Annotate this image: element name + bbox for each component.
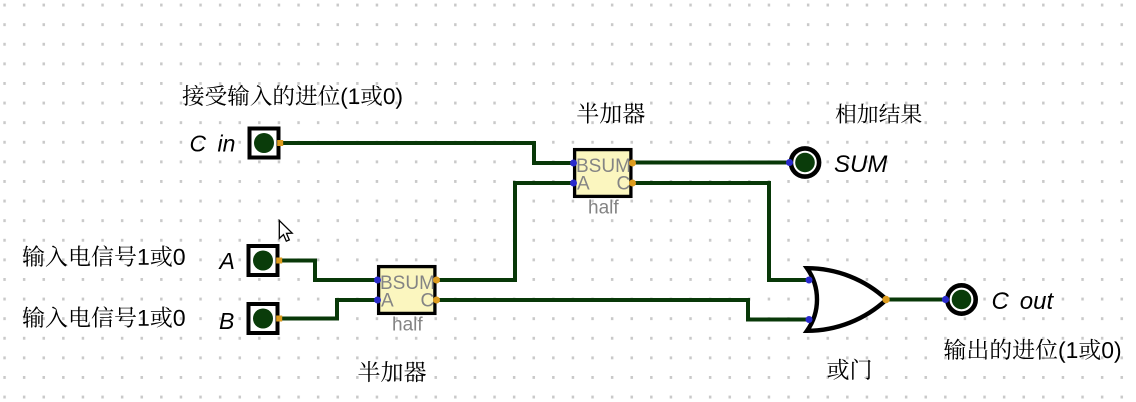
input pin C in [250, 129, 284, 158]
annotation: 半加器 (top) [577, 103, 645, 124]
svg-text:SUM: SUM [834, 151, 887, 178]
svg-text:half: half [588, 198, 619, 219]
svg-text:half: half [392, 315, 423, 336]
svg-text:Cout: Cout [992, 288, 1055, 315]
annotation: 半加器 (bottom) [358, 361, 426, 382]
annotation: 相加结果 [836, 104, 922, 124]
wire from C in pin to half adder U2 input B [281, 143, 575, 163]
OR gate [806, 268, 890, 331]
output pin SUM [786, 148, 819, 176]
half adder U2 (top BSUM subcircuit) [570, 150, 636, 219]
wire from U1 sum output to half adder U2 input A [437, 183, 575, 280]
wire from pin B to half adder U1 input A [280, 300, 378, 319]
annotation: 或门 [827, 359, 870, 380]
wire from U2 carry output to OR gate input 1 [632, 183, 808, 280]
annotation: 输入电信号1或0 (for A) [23, 245, 185, 266]
svg-text:A: A [218, 248, 235, 274]
svg-text:A: A [577, 174, 590, 195]
svg-text:B: B [219, 308, 234, 334]
wire from pin A to half adder U1 input B [280, 261, 378, 281]
output pin C out [942, 285, 976, 313]
input pin B [249, 304, 283, 333]
annotation: 输出的进位(1或0) [944, 339, 1120, 363]
mouse cursor [279, 221, 292, 242]
input pin A [249, 246, 283, 275]
svg-text:A: A [381, 291, 394, 312]
wire from OR gate output to pin C out [886, 298, 946, 302]
annotation: 输入电信号1或0 (for B) [23, 306, 185, 327]
svg-text:C: C [617, 174, 631, 195]
wire from U2 sum output to pin SUM [632, 161, 791, 165]
svg-text:C: C [421, 291, 435, 312]
half adder U1 (bottom BSUM subcircuit) [374, 267, 440, 336]
annotation: 接受输入的进位(1或0) [183, 85, 402, 109]
wire from U1 carry output to OR gate input 2 [437, 300, 808, 320]
